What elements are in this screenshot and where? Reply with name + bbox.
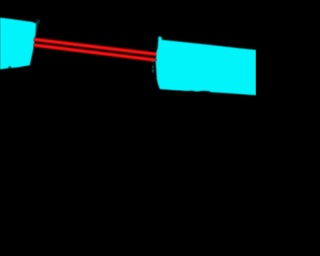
cyan specks near right block lower-left: [152, 60, 154, 72]
red line upper: [34, 39, 158, 54]
left cyan block halo: [0, 18, 40, 70]
red line lower: [34, 45, 156, 60]
right cyan block: [156, 37, 256, 96]
red line halos: [34, 39, 158, 60]
faint smudge right of left block corner: [37, 19, 41, 23]
left cyan block: [0, 18, 36, 70]
dark blemish on left block bottom edge: [9, 66, 11, 70]
